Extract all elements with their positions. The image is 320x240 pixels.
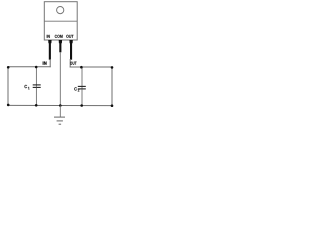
pin 2 (COM lead) <box>59 40 62 52</box>
pin label IN <box>47 35 50 38</box>
junction dot: IN rail left corner <box>7 66 10 69</box>
wire: left vertical rail <box>7 67 9 106</box>
wire: OUT rail (horizontal) <box>70 66 112 68</box>
ground <box>54 106 65 125</box>
wire: pin1 down to IN rail <box>49 59 51 67</box>
wire: IN rail (horizontal) <box>8 66 51 68</box>
wire: COM pin down to ground node <box>59 52 61 106</box>
junction dot: C1 top <box>35 66 38 69</box>
junction dot: bottom right corner <box>111 104 114 107</box>
capacitor C2 <box>78 67 86 106</box>
node label IN <box>43 62 47 65</box>
node label OUT <box>70 62 76 65</box>
pin label COM <box>55 35 63 38</box>
pin 3 (OUT lead) <box>69 40 72 60</box>
junction dot: C2 bottom <box>80 104 83 107</box>
regulator U1 (TO-220 package body) <box>44 2 77 40</box>
capacitor C1 <box>33 67 41 106</box>
wire: pin3 down to OUT rail <box>69 59 71 67</box>
pin label OUT <box>66 35 73 38</box>
wire: bottom rail (horizontal) <box>8 104 112 106</box>
junction dot: ground node <box>59 104 62 107</box>
label C2 <box>74 87 77 90</box>
junction dot: bottom left corner <box>7 104 10 107</box>
pin 1 (IN lead) <box>48 40 51 60</box>
label C1 <box>24 85 27 88</box>
wire: right vertical rail <box>111 67 113 106</box>
junction dot: C2 top <box>80 66 83 69</box>
junction dot: C1 bottom <box>35 104 38 107</box>
junction dot: OUT rail right corner <box>111 66 114 69</box>
